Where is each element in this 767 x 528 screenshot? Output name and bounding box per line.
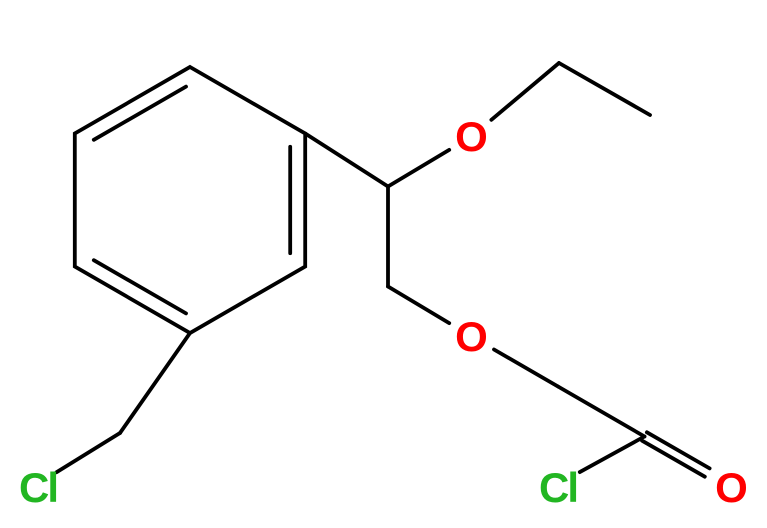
svg-text:O: O	[455, 313, 488, 360]
wire P1 to P2 vertical	[386, 187, 390, 287]
svg-text:Cl: Cl	[19, 464, 57, 511]
svg-text:O: O	[715, 464, 748, 511]
benzene ring	[75, 67, 305, 333]
wire P2 to O2	[388, 287, 449, 324]
wire O1 to ethyl CH2	[491, 63, 559, 120]
double bond C=O3 line 2	[647, 432, 710, 468]
aromatic inner bond upper-left edge	[94, 87, 186, 140]
wire CH2c to Cl1	[57, 433, 121, 472]
aromatic inner bond lower-left edge	[94, 260, 186, 313]
wire carbonyl C to Cl2	[580, 437, 645, 473]
wire CH2b to carbonyl C	[558, 387, 645, 437]
wire ring B to CH2c	[120, 333, 190, 433]
wire ring NE to P1	[305, 134, 388, 187]
wire O2 to CH2b	[494, 350, 558, 387]
double bond C=O3 line 1	[642, 441, 705, 477]
svg-text:Cl: Cl	[539, 464, 577, 511]
wire ethyl CH2 to CH3	[559, 63, 650, 115]
svg-text:O: O	[455, 113, 488, 160]
aromatic inner bond right edge	[288, 147, 292, 253]
wire P1 to O1	[388, 150, 449, 187]
